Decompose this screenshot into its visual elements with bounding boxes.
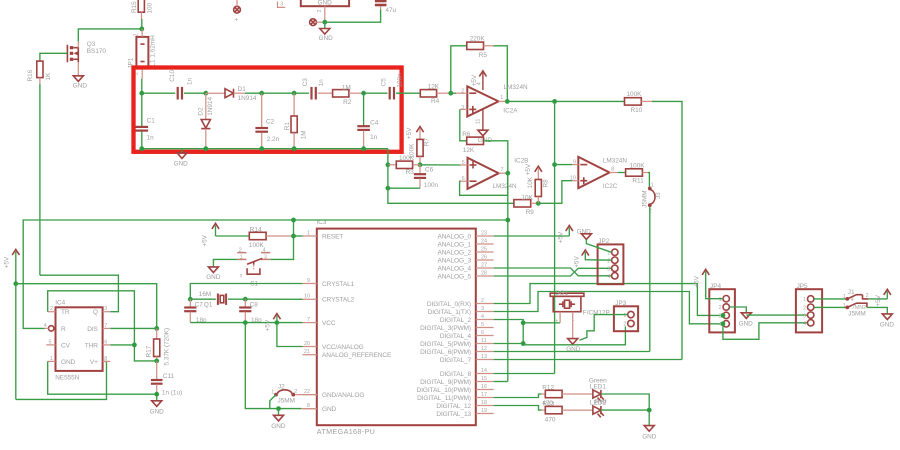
jack J1 J5MM [843, 289, 869, 317]
svg-text:4: 4 [803, 321, 806, 327]
svg-text:JP5: JP5 [797, 283, 808, 290]
wire R15 to junction [141, 19, 143, 29]
node bottom rail D2 [203, 146, 208, 151]
node junction pad/GND/47u [322, 20, 327, 25]
wire crystal ground rail down [245, 323, 301, 409]
wire bottom rail riser to R3 node [387, 149, 389, 165]
svg-text:2: 2 [719, 305, 722, 311]
wire JP4 pin4 loop to JP5 pin4 [723, 323, 808, 340]
svg-text:DIGITAL_4: DIGITAL_4 [440, 333, 472, 340]
IC3 right pin 14 DIGITAL_8 [440, 368, 494, 378]
svg-text:9: 9 [573, 160, 576, 166]
resistor R3 100K [388, 155, 420, 176]
wire R3 node to IC2B pin5 [420, 164, 461, 166]
svg-text:+5V: +5V [557, 231, 564, 243]
svg-text:17: 17 [481, 392, 487, 398]
IC4 pin 4 R with bubble [44, 323, 54, 331]
svg-text:ATMEGA168-PU: ATMEGA168-PU [317, 427, 375, 436]
svg-text:J5MM: J5MM [848, 310, 865, 317]
svg-text:LED1: LED1 [590, 384, 606, 391]
wire +5V to DIS junction [16, 284, 157, 329]
wire JP5 pin3 to gnd [746, 314, 807, 316]
wire Q3 drain to junction [78, 29, 142, 42]
svg-text:C6: C6 [425, 167, 434, 174]
svg-text:GND: GND [150, 409, 165, 416]
node C8 top [243, 297, 248, 302]
svg-text:7: 7 [307, 317, 310, 323]
svg-text:+5V: +5V [574, 256, 581, 268]
svg-text:DIGITAL_1(TX): DIGITAL_1(TX) [428, 309, 471, 316]
wire ANALOG_5 to JP2 pin3 (cross) [494, 268, 612, 276]
wire junction to 47u [325, 9, 381, 22]
ground LEDs [642, 410, 657, 440]
svg-text:C8: C8 [250, 301, 259, 308]
svg-text:1: 1 [803, 297, 806, 303]
svg-text:+5V: +5V [525, 163, 532, 175]
IC3 left pin 9 CRYSTAL1 [303, 278, 355, 288]
resistor R9 10K [514, 194, 538, 216]
resistor R12 470 [542, 384, 593, 407]
wire R5 to IC2A output [494, 46, 508, 102]
wire IC2B out down long to DIGITAL_9 [507, 173, 509, 381]
svg-text:1: 1 [271, 389, 274, 395]
wire node to crystal [190, 298, 216, 300]
node R3 left [386, 162, 391, 167]
resistor R10 100K [625, 91, 655, 114]
header JP2 [598, 238, 624, 284]
node +5V rail [13, 281, 18, 286]
wire C2 node to R1 node [262, 92, 294, 94]
svg-text:GND: GND [319, 35, 334, 42]
wire C10 to D2 node [184, 92, 206, 94]
svg-text:GND: GND [880, 321, 895, 328]
ground bottom rail [271, 409, 286, 430]
svg-text:15: 15 [481, 376, 487, 382]
svg-text:4: 4 [607, 274, 610, 280]
IC3 right pin 4 DIGITAL_2 [440, 314, 494, 324]
wire filter top rail segment 1 [142, 92, 175, 94]
wire R5 feedback loop [451, 46, 467, 93]
wire THR to R17 bottom [110, 345, 156, 361]
resistor R4 [420, 84, 451, 106]
node JP4 pin3 [721, 313, 726, 318]
svg-text:100: 100 [147, 2, 154, 13]
svg-text:7: 7 [104, 323, 107, 329]
svg-text:11: 11 [481, 338, 487, 344]
capacitor C3 [302, 78, 325, 100]
svg-text:DIGITAL_3(PWM): DIGITAL_3(PWM) [420, 325, 471, 332]
svg-text:NE555N: NE555N [55, 375, 80, 382]
IC3 left pin 22 GND/ANALOG [303, 389, 365, 399]
svg-text:DIGITAL_8: DIGITAL_8 [440, 371, 472, 378]
svg-text:10: 10 [304, 294, 310, 300]
svg-text:J1: J1 [848, 289, 855, 296]
svg-text:27: 27 [481, 262, 487, 268]
node bottom rail R1 [292, 146, 297, 151]
wire C5 out of box to R4 [396, 92, 420, 94]
IC4 pin 5 CV stub [46, 339, 55, 345]
svg-text:IC4: IC4 [55, 299, 65, 306]
svg-text:12K: 12K [428, 84, 440, 91]
svg-text:ANALOG_5: ANALOG_5 [437, 273, 471, 280]
node RESET line at IC2B riser [505, 218, 510, 223]
wire DIGITAL_0 RX to JP4 pin3 [494, 284, 720, 316]
+5V arrow R8 [525, 163, 542, 179]
svg-text:R16: R16 [27, 69, 34, 81]
svg-text:+5V: +5V [875, 294, 882, 306]
svg-text:6: 6 [462, 176, 465, 182]
pin 3 stub of power module [278, 1, 286, 7]
svg-text:2: 2 [803, 305, 806, 311]
svg-text:4: 4 [263, 247, 266, 253]
svg-text:2: 2 [866, 293, 869, 299]
svg-text:GND: GND [318, 0, 333, 6]
svg-text:ANALOG_2: ANALOG_2 [437, 249, 471, 256]
svg-text:R2: R2 [343, 99, 352, 106]
op-amp IC2A [451, 84, 528, 117]
svg-text:JP2: JP2 [598, 238, 609, 245]
svg-text:100K: 100K [630, 162, 646, 169]
svg-text:JP4: JP4 [710, 283, 721, 290]
svg-text:2: 2 [239, 247, 242, 253]
svg-text:CRYSTAL1: CRYSTAL1 [322, 281, 355, 288]
wire RESET branch down [293, 220, 295, 236]
svg-text:1: 1 [843, 303, 846, 309]
node DIS junction [154, 326, 159, 331]
IC3 right pin 5 DIGITAL_3(PWM) [420, 322, 493, 332]
svg-text:24: 24 [481, 238, 487, 244]
diode D1 1N914 [206, 86, 257, 102]
svg-text:1: 1 [719, 297, 722, 303]
svg-text:1: 1 [240, 255, 243, 261]
svg-text:1: 1 [623, 313, 626, 319]
svg-text:LED2: LED2 [590, 400, 606, 407]
IC4 pin 3 Q [103, 306, 111, 312]
node SG1 branch [521, 320, 526, 325]
wire CRYSTAL1 line [190, 284, 302, 300]
svg-text:1n: 1n [147, 135, 155, 142]
svg-text:4: 4 [851, 297, 854, 303]
svg-text:9: 9 [307, 278, 310, 284]
wire LED1 to gnd riser [601, 394, 649, 410]
svg-text:2: 2 [607, 258, 610, 264]
svg-text:C2: C2 [266, 119, 275, 126]
IC3 right pin 16 DIGITAL_10(PWM) [417, 384, 494, 394]
svg-text:C3: C3 [302, 78, 309, 87]
ground SG1 [566, 339, 581, 353]
svg-text:R5: R5 [479, 52, 488, 59]
svg-text:DIGITAL_2: DIGITAL_2 [440, 317, 472, 324]
svg-text:10K: 10K [522, 194, 534, 201]
svg-text:GND: GND [174, 161, 189, 168]
svg-text:DIGITAL_0(RX): DIGITAL_0(RX) [427, 301, 471, 308]
node bottom rail C1 [139, 146, 144, 151]
svg-text:R9: R9 [526, 209, 535, 216]
op-amp IC2C [570, 157, 627, 190]
node JP4 pin4 [721, 321, 726, 326]
svg-text:+5V: +5V [264, 319, 271, 331]
node C2 top [259, 91, 264, 96]
wire CRYSTAL2 to node [245, 298, 302, 300]
wire D1 to C2 node [245, 92, 262, 94]
ground S1 [206, 267, 221, 281]
wire to IC2C pin 9 [555, 164, 573, 166]
pin 2 of power module [317, 6, 325, 22]
IC3 left pin 8 GND [303, 403, 337, 413]
svg-text:1M: 1M [342, 84, 351, 91]
svg-text:1: 1 [651, 182, 654, 188]
ground below Q3 [73, 76, 88, 90]
+5V arrow VCC [264, 314, 280, 332]
svg-text:Q3: Q3 [87, 41, 96, 48]
svg-text:3: 3 [280, 1, 283, 7]
wire DIGITAL_5 to riser [494, 343, 524, 345]
wire R16 down long (to 555 Q net) [39, 84, 41, 275]
IC3 right pin 25 ANALOG_2 [437, 246, 493, 256]
svg-text:ANALOG_4: ANALOG_4 [437, 265, 471, 272]
IC4 pin 7 DIS [103, 323, 111, 329]
wire 555 GND pin down [48, 361, 157, 394]
svg-text:1K: 1K [45, 72, 52, 81]
svg-text:1n (1u): 1n (1u) [162, 389, 182, 396]
wire R1 node to C3 [294, 92, 309, 94]
svg-text:GND: GND [322, 406, 337, 413]
svg-text:-: - [573, 318, 575, 324]
svg-text:10: 10 [570, 176, 576, 182]
IC3 left pin 1 RESET [303, 230, 344, 240]
wire filter bottom rail [142, 148, 388, 150]
svg-text:R10: R10 [631, 107, 643, 114]
svg-text:100n: 100n [424, 182, 439, 189]
svg-text:IC2B: IC2B [514, 157, 528, 164]
wire +5V rail down to V+ line [15, 284, 17, 400]
svg-text:THR: THR [85, 342, 98, 349]
svg-text:R11: R11 [632, 177, 644, 184]
svg-text:GND: GND [271, 423, 286, 430]
svg-text:DIGITAL_12: DIGITAL_12 [436, 403, 471, 410]
svg-text:2: 2 [481, 298, 484, 304]
svg-text:8: 8 [104, 356, 107, 362]
wire C6 bottom to left riser [388, 187, 420, 189]
svg-text:1n: 1n [318, 79, 325, 87]
node RESET line branch [291, 218, 296, 223]
wire IC2B feedback pin6 [460, 173, 508, 195]
svg-text:R1: R1 [284, 122, 291, 131]
capacitor C2 [255, 93, 279, 149]
node branch to IC2C [552, 99, 557, 104]
node C7/Q1 [188, 297, 193, 302]
wire DIGITAL_2 to SG1/JP3 riser [494, 320, 524, 345]
svg-text:CRYSTAL2: CRYSTAL2 [322, 297, 355, 304]
+5V arrow J1 [875, 289, 891, 306]
wire Q out to R16 net [40, 275, 119, 312]
svg-text:16: 16 [481, 384, 487, 390]
svg-text:1: 1 [50, 356, 53, 362]
svg-text:R6: R6 [462, 131, 471, 138]
wire ANALOG_0 to +5V [494, 235, 570, 237]
IC3 left pin 7 VCC [303, 317, 336, 327]
svg-text:.: . [304, 21, 306, 28]
svg-text:ANALOG_1: ANALOG_1 [437, 241, 471, 248]
resistor R8 10K (vertical) [527, 176, 549, 203]
power module box (top, cut off) [301, 0, 349, 6]
svg-text:220K: 220K [470, 35, 486, 42]
node VCC branch [275, 320, 280, 325]
svg-text:DIS: DIS [87, 326, 98, 333]
wire DIGITAL_6 from J3 [494, 351, 650, 353]
svg-text:6: 6 [481, 330, 484, 336]
svg-text:1: 1 [843, 294, 846, 300]
svg-text:GND: GND [642, 433, 657, 440]
+5V arrow ANALOG_0 [557, 226, 573, 244]
IC3 left pin 21 ANALOG_REFERENCE [303, 349, 392, 359]
wire DIGITAL_9 from IC2B buffer [494, 381, 508, 383]
svg-text:GND: GND [566, 346, 581, 353]
solder pad X2 [304, 19, 325, 28]
node C8 bottom [243, 320, 248, 325]
op-amp IC2B [461, 157, 529, 190]
svg-text:J3: J3 [655, 192, 662, 199]
svg-text:RESET: RESET [322, 233, 343, 240]
power pin 11 GND IC2A [475, 109, 492, 145]
svg-text:+: + [555, 318, 558, 324]
+5V arrow S1/R14 [202, 223, 219, 246]
node R8/R9 [536, 201, 541, 206]
svg-text:DIGITAL_10(PWM): DIGITAL_10(PWM) [417, 387, 471, 394]
svg-text:3: 3 [264, 255, 267, 261]
svg-text:+5V: +5V [693, 275, 700, 287]
node R17 bottom [154, 359, 159, 364]
IC3 right pin 11 DIGITAL_5(PWM) [420, 338, 493, 348]
resistor R11 100K [618, 162, 649, 184]
node RESET junction [291, 234, 296, 239]
svg-text:SG1: SG1 [555, 290, 568, 297]
node C4 top [361, 91, 366, 96]
svg-text:7: 7 [501, 167, 504, 173]
svg-text:100K: 100K [399, 155, 415, 162]
capacitor C11 [151, 361, 182, 396]
capacitor C7 18p [184, 299, 207, 324]
wire DIGITAL_7 from R10 [494, 359, 682, 361]
wire IC2A out to R10 [507, 100, 624, 102]
svg-text:25: 25 [481, 246, 487, 252]
wire LED2 to gnd [601, 409, 649, 411]
svg-text:19: 19 [481, 408, 487, 414]
resistor R17 (vertical) [145, 328, 170, 366]
svg-text:ANALOG_0: ANALOG_0 [437, 233, 471, 240]
svg-text:ANALOG_3: ANALOG_3 [437, 257, 471, 264]
svg-text:3: 3 [461, 105, 464, 111]
svg-text:1N914: 1N914 [207, 97, 214, 116]
buzzer SG1 [550, 290, 610, 339]
capacitor C10 [169, 70, 193, 100]
wire R6 to IC2B output [484, 141, 508, 173]
svg-text:VCC: VCC [322, 320, 336, 327]
svg-text:IC2A: IC2A [503, 108, 518, 115]
svg-text:DIGITAL_7: DIGITAL_7 [440, 357, 472, 364]
resistor R2 [318, 84, 364, 106]
resistor R16 [27, 61, 52, 84]
IC4 pin 8 V+ [103, 356, 111, 362]
svg-text:2: 2 [317, 10, 323, 13]
svg-text:5: 5 [481, 322, 484, 328]
svg-text:LM324N: LM324N [603, 157, 628, 164]
solder pad X1 (+) [234, 0, 241, 23]
svg-text:2: 2 [461, 89, 464, 95]
svg-text:C7: C7 [195, 301, 204, 308]
+5V arrow R7 [406, 127, 424, 140]
svg-text:4: 4 [481, 314, 484, 320]
header JP3 [614, 300, 638, 331]
svg-text:1: 1 [500, 95, 503, 101]
svg-text:2: 2 [134, 34, 140, 37]
IC IC3 ATMEGA168-PU [317, 219, 476, 436]
IC3 right pin 17 DIGITAL_11(PWM) [417, 392, 493, 402]
IC IC4 NE555N [55, 299, 102, 381]
IC3 right pin 19 DIGITAL_13 [436, 408, 493, 418]
svg-text:Q: Q [93, 309, 98, 316]
svg-text:J5MM: J5MM [278, 398, 295, 405]
wire riser to JP3 pin2 [523, 327, 625, 345]
svg-text:C11: C11 [163, 373, 175, 380]
wire +5V to R14 [216, 235, 250, 237]
svg-text:D2: D2 [198, 107, 205, 116]
svg-text:1n: 1n [370, 134, 378, 141]
capacitor C1 [136, 93, 156, 149]
svg-text:16M: 16M [199, 291, 211, 298]
svg-text:GND/ANALOG: GND/ANALOG [322, 392, 364, 399]
svg-text:J2: J2 [278, 383, 285, 390]
wire J1 bottom to gnd [867, 307, 887, 314]
svg-text:C5: C5 [380, 78, 387, 87]
IC3 right pin 23 ANALOG_0 [437, 230, 493, 240]
IC3 right pin 27 ANALOG_4 [437, 262, 493, 272]
wire to VCC/ANALOG pin20 [277, 323, 303, 347]
wire JP4 pin2 to gnd [729, 307, 746, 313]
wire SG1 plus pin to riser [523, 322, 560, 324]
svg-text:R: R [61, 326, 66, 333]
svg-text:23: 23 [481, 230, 487, 236]
svg-text:3: 3 [607, 267, 610, 273]
svg-text:J5MM: J5MM [641, 190, 648, 207]
node D2 top [203, 91, 208, 96]
IC3 right pin 24 ANALOG_1 [437, 238, 493, 248]
svg-text:18: 18 [481, 400, 487, 406]
svg-text:LM324N: LM324N [493, 183, 518, 190]
svg-text:3: 3 [481, 306, 484, 312]
svg-text:IC2C: IC2C [603, 183, 618, 190]
ground JP4/JP5 [739, 313, 754, 328]
+5V arrow JP4 pin1 [693, 269, 723, 298]
IC3 left pin 20 VCC/ANALOG [303, 341, 364, 351]
IC3 right pin 6 DIGITAL_4 [440, 330, 494, 340]
wire RESET down to S1 pin3 [270, 236, 293, 259]
svg-text:+5V: +5V [3, 256, 10, 268]
resistor R15 [131, 0, 154, 20]
wire pin8 GND stub [301, 408, 316, 410]
svg-text:12: 12 [481, 346, 487, 352]
ground below pad junction [319, 22, 334, 42]
svg-text:8: 8 [611, 166, 614, 172]
svg-text:DIGITAL_5(PWM): DIGITAL_5(PWM) [420, 341, 471, 348]
wire crystal to C8 node [228, 298, 245, 300]
svg-text:+5V: +5V [471, 74, 478, 86]
wire riser down to R9 line [388, 165, 514, 204]
resistor R5 220K [467, 35, 495, 59]
svg-text:13: 13 [481, 354, 487, 360]
node R3/R7/C6 [418, 162, 423, 167]
svg-text:GND: GND [739, 320, 754, 327]
